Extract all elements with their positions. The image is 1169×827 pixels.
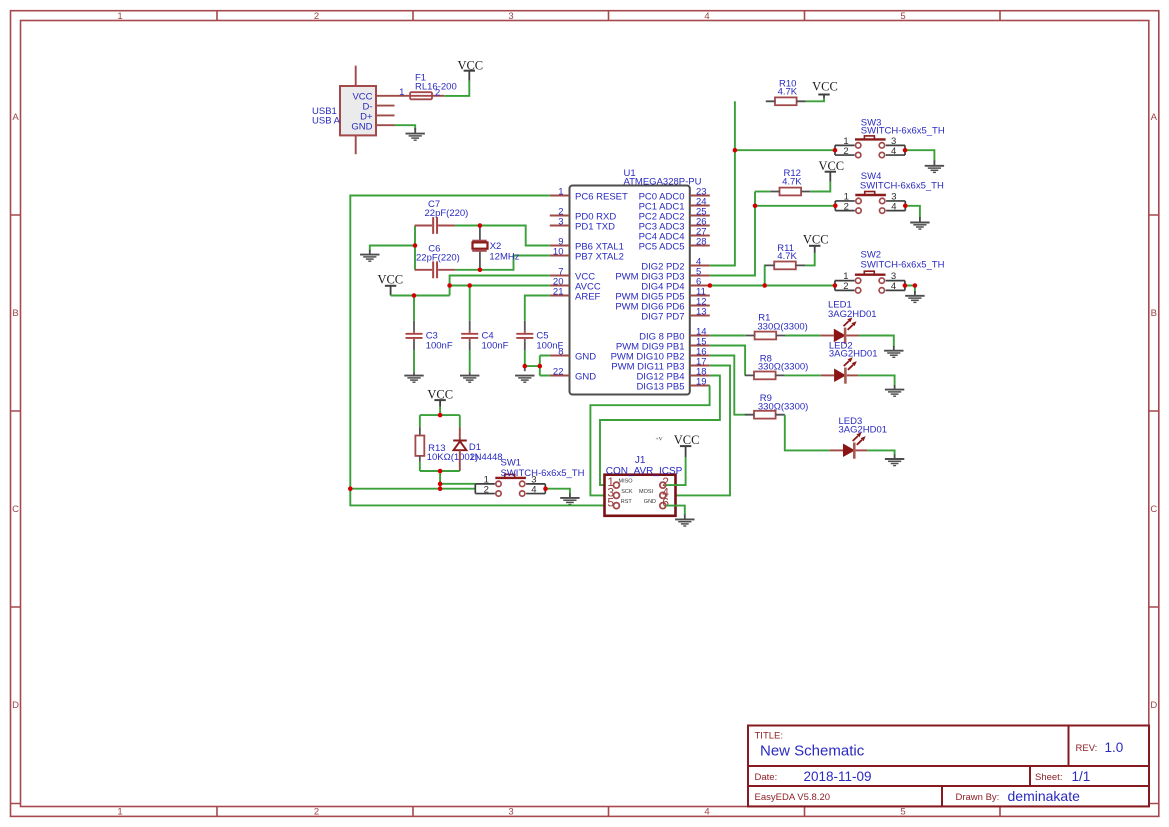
- svg-text:22pF(220): 22pF(220): [425, 208, 469, 219]
- resistor R8 330ohm: [745, 353, 809, 379]
- svg-text:SWITCH-6x6x5_TH: SWITCH-6x6x5_TH: [861, 259, 945, 270]
- wire R1 to LED1: [785, 335, 820, 337]
- svg-text:GND: GND: [575, 351, 596, 362]
- junction X2 bottom / XTAL2: [478, 268, 483, 273]
- junction SW4 pin1-2: [833, 204, 838, 209]
- svg-text:28: 28: [696, 237, 707, 248]
- wire R10 to VCC: [806, 98, 824, 101]
- svg-text:VCC: VCC: [803, 232, 829, 246]
- junction VCC/R13 rail: [438, 413, 443, 418]
- svg-text:VCC: VCC: [674, 433, 700, 447]
- svg-text:PB7 XTAL2: PB7 XTAL2: [575, 251, 624, 262]
- connector J1 CON_AVR_ICSP: [605, 436, 683, 515]
- junction C4 top: [467, 283, 472, 288]
- resistor R9 330ohm: [745, 393, 809, 419]
- diode D1 1N4448: [453, 427, 502, 471]
- wire C3 drop: [413, 296, 415, 321]
- resistor R1 330ohm: [745, 313, 807, 340]
- svg-text:MISO: MISO: [619, 478, 634, 484]
- svg-text:19: 19: [696, 377, 707, 388]
- svg-text:5: 5: [607, 496, 614, 510]
- svg-text:GND: GND: [644, 499, 656, 505]
- svg-text:330Ω(3300): 330Ω(3300): [758, 401, 808, 412]
- power VCC (U1 supply): [377, 272, 403, 295]
- svg-text:1: 1: [558, 187, 563, 198]
- svg-text:3AG2HD01: 3AG2HD01: [839, 425, 888, 436]
- wire RESET to SW1: [350, 488, 475, 490]
- wire MOSI net: U1 pin17 to J1 pin4: [666, 366, 730, 496]
- wire SCK net: U1 pin19 to J1 pin3: [590, 386, 709, 496]
- svg-text:ATMEGA328P-PU: ATMEGA328P-PU: [624, 177, 702, 188]
- ground (LED2): [885, 385, 904, 396]
- crystal X2 12MHz: [472, 226, 520, 270]
- junction PD3/SW4: [753, 204, 758, 209]
- switch SW3: [835, 117, 945, 157]
- ground (LED3): [885, 455, 904, 466]
- svg-text:1: 1: [399, 87, 404, 98]
- wire PD4 net: U1 pin6 to SW2: [710, 285, 835, 287]
- wire LED1 to ground: [859, 336, 894, 348]
- wire R11 to VCC: [805, 253, 815, 266]
- wire R12 to VCC: [810, 182, 830, 192]
- svg-text:22: 22: [553, 367, 564, 378]
- power VCC (R13 reset): [427, 388, 453, 407]
- svg-text:PC5 ADC5: PC5 ADC5: [639, 241, 685, 252]
- ground (SW1): [560, 493, 579, 504]
- wire PB0 net: U1 pin14 to R1: [710, 335, 745, 337]
- svg-text:RST: RST: [621, 499, 633, 505]
- svg-text:12MHz: 12MHz: [489, 252, 519, 263]
- wire RST net to J1 pin5: [350, 489, 613, 506]
- ground (C3): [404, 376, 423, 383]
- svg-text:Drawn By:: Drawn By:: [956, 792, 1000, 803]
- wire SW1 to ground: [546, 489, 570, 495]
- svg-text:2: 2: [435, 88, 440, 99]
- svg-text:4.7K: 4.7K: [777, 251, 797, 262]
- ground (C4): [460, 376, 479, 383]
- svg-text:GND: GND: [351, 121, 372, 132]
- ground (SW2): [905, 291, 924, 302]
- svg-text:USB A: USB A: [312, 116, 341, 127]
- wire SW4 to ground: [905, 206, 920, 218]
- capacitor C3 100nF: [406, 321, 453, 375]
- IC U1 ATMEGA328P-PU body: [570, 168, 702, 395]
- wire VCC to R13/D1 top rail: [420, 407, 460, 427]
- U1 left pin stubs: [550, 196, 570, 376]
- svg-text:3: 3: [558, 217, 563, 228]
- capacitor C5 100nF: [516, 321, 563, 371]
- svg-text:3AG2HD01: 3AG2HD01: [828, 309, 877, 320]
- junction C5 bottom GND: [523, 364, 528, 369]
- junction SW3 pin3-4: [903, 148, 908, 153]
- wire SW3 to ground: [905, 150, 934, 161]
- junction xtal gnd branch: [413, 243, 418, 248]
- svg-text:21: 21: [553, 287, 564, 298]
- svg-text:Sheet:: Sheet:: [1035, 772, 1062, 783]
- svg-text:B: B: [12, 308, 18, 319]
- wire J1 pin6 to ground: [666, 506, 685, 515]
- junction SW4 pin3-4: [903, 204, 908, 209]
- LED2 3AG2HD01: [821, 341, 878, 384]
- svg-text:4.7K: 4.7K: [782, 177, 802, 188]
- junction GND pins branch: [538, 364, 543, 369]
- svg-text:X2: X2: [490, 241, 502, 252]
- wire AREF: U1 pin21 to C5: [525, 296, 550, 321]
- junction SW1 pin3-4: [543, 486, 548, 491]
- U1 right pin stubs: [690, 196, 710, 386]
- wire xtal left bus: [414, 226, 416, 270]
- junction SW2 pin1-2: [833, 283, 838, 288]
- svg-text:New Schematic: New Schematic: [760, 743, 865, 760]
- svg-text:GND: GND: [575, 371, 596, 382]
- svg-text:SWITCH-6x6x5_TH: SWITCH-6x6x5_TH: [501, 468, 585, 479]
- svg-text:C: C: [1150, 504, 1157, 515]
- svg-text:VCC: VCC: [818, 159, 844, 173]
- power VCC (USB): [457, 58, 483, 80]
- svg-text:2: 2: [314, 807, 319, 818]
- svg-text:4: 4: [704, 11, 709, 22]
- svg-text:1/1: 1/1: [1072, 769, 1091, 784]
- svg-text:13: 13: [696, 307, 707, 318]
- resistor R11 4.7K: [765, 243, 805, 269]
- svg-text:SWITCH-6x6x5_TH: SWITCH-6x6x5_TH: [860, 181, 944, 192]
- wire MISO net: U1 pin18 to J1 pin1: [600, 376, 720, 486]
- svg-text:TITLE:: TITLE:: [755, 731, 784, 742]
- svg-text:PC6 RESET: PC6 RESET: [575, 191, 628, 202]
- LED1 3AG2HD01: [820, 300, 876, 344]
- svg-text:100nF: 100nF: [536, 341, 563, 352]
- wire RESET net: U1 pin1 to SW1 area: [350, 196, 550, 489]
- svg-text:100nF: 100nF: [482, 341, 509, 352]
- svg-text:1: 1: [117, 11, 122, 22]
- svg-text:J1: J1: [635, 455, 646, 466]
- junction PD4 stub: [708, 283, 713, 288]
- U1 left pin names: [575, 191, 628, 382]
- junction SW2 pin3-4: [903, 283, 908, 288]
- junction SW1 pin1 row: [438, 482, 443, 487]
- capacitor C4 100nF: [461, 321, 508, 375]
- svg-text:SWITCH-6x6x5_TH: SWITCH-6x6x5_TH: [861, 126, 945, 137]
- resistor R13 10K (vertical): [415, 427, 478, 463]
- svg-text:10: 10: [553, 247, 564, 258]
- junction AVCC column: [447, 283, 452, 288]
- svg-text:1N4448: 1N4448: [469, 452, 502, 463]
- wire PB1 net: U1 pin15 to R8: [710, 346, 745, 376]
- junction R13/D1 bottom rail: [438, 469, 443, 474]
- svg-text:deminakate: deminakate: [1008, 788, 1081, 804]
- wire SW1 pin1 row: [440, 483, 475, 485]
- capacitor C6 22pF: [415, 243, 460, 278]
- svg-text:D: D: [12, 700, 19, 711]
- svg-text:C: C: [12, 504, 19, 515]
- svg-text:SCK: SCK: [621, 489, 633, 495]
- svg-text:VCC: VCC: [377, 272, 403, 286]
- wire XTAL1 net: U1 pin9 to C7 line: [455, 226, 550, 246]
- svg-text:5: 5: [900, 11, 905, 22]
- wire VCC rail to pin7/pin20: [391, 276, 550, 296]
- svg-text:330Ω(3300): 330Ω(3300): [757, 321, 807, 332]
- resistor R10 4.7K: [766, 79, 806, 106]
- junction R11/PD4: [762, 283, 767, 288]
- svg-text:A: A: [1151, 112, 1158, 123]
- wire R8 to LED2: [785, 374, 821, 376]
- svg-text:3AG2HD01: 3AG2HD01: [829, 348, 878, 359]
- svg-text:1: 1: [117, 807, 122, 818]
- ground (C5): [515, 376, 534, 383]
- wire R11 drop: [765, 265, 767, 285]
- svg-text:A: A: [12, 112, 19, 123]
- USB1 pin stubs: [376, 96, 410, 125]
- switch SW1: [475, 458, 584, 497]
- svg-text:+V: +V: [656, 436, 663, 442]
- svg-text:Date:: Date:: [755, 772, 778, 783]
- capacitor C7 22pF: [415, 199, 469, 234]
- junction X2 top / XTAL1: [478, 223, 483, 228]
- svg-text:2018-11-09: 2018-11-09: [804, 769, 872, 784]
- svg-text:MOSI: MOSI: [639, 489, 654, 495]
- junction reset/SW1 row: [438, 486, 443, 491]
- ground (SW4): [910, 217, 929, 229]
- LED3 3AG2HD01: [830, 416, 887, 459]
- svg-text:5: 5: [900, 807, 905, 818]
- wire F1 to VCC: [444, 81, 469, 96]
- U1 right pin names: [611, 191, 685, 392]
- wire USB GND to ground: [395, 125, 416, 130]
- svg-text:D: D: [1150, 700, 1157, 711]
- switch SW2: [835, 250, 945, 293]
- svg-text:DIG13 PB5: DIG13 PB5: [636, 381, 684, 392]
- wire SW2 to ground: [905, 286, 915, 292]
- U1 left pin numbers: [553, 187, 564, 378]
- svg-text:330Ω(3300): 330Ω(3300): [758, 362, 808, 373]
- junction C3 top: [412, 293, 417, 298]
- ground (LED1): [884, 346, 903, 357]
- wire C4 drop: [469, 286, 471, 321]
- connector USB1 body: [312, 66, 376, 155]
- svg-text:AREF: AREF: [575, 291, 601, 302]
- power VCC (J1): [674, 433, 700, 457]
- ground (USB): [406, 128, 425, 140]
- wire PD2 net: U1 pin4 up to R10 and SW3: [710, 101, 835, 265]
- wire R9 to LED3: [785, 415, 830, 451]
- wire J1 pin2 to VCC: [666, 457, 686, 485]
- svg-text:3: 3: [508, 11, 513, 22]
- ground (J1): [675, 515, 694, 527]
- svg-text:CON_AVR_ICSP: CON_AVR_ICSP: [606, 466, 683, 477]
- svg-text:DIG7 PD7: DIG7 PD7: [641, 311, 684, 322]
- svg-text:4.7K: 4.7K: [778, 87, 798, 98]
- wire PD3 net: U1 pin5 up to R12 and SW4: [710, 192, 836, 276]
- svg-text:3: 3: [508, 807, 513, 818]
- junction RESET bus: [348, 486, 353, 491]
- wire R13/D1 bottom rail: [420, 462, 460, 489]
- svg-text:B: B: [1151, 308, 1157, 319]
- wire LED3 to ground: [867, 450, 895, 455]
- svg-text:4: 4: [704, 807, 709, 818]
- fuse F1 RL16-200: [399, 73, 457, 100]
- svg-text:PD1 TXD: PD1 TXD: [575, 221, 615, 232]
- wire LED2 to ground: [858, 375, 894, 385]
- svg-text:6: 6: [662, 496, 669, 510]
- junction SW3 pin1-2: [833, 148, 838, 153]
- svg-text:EasyEDA V5.8.20: EasyEDA V5.8.20: [755, 792, 831, 803]
- svg-text:1.0: 1.0: [1105, 740, 1124, 755]
- title block: [748, 726, 1149, 807]
- svg-text:VCC: VCC: [457, 58, 483, 72]
- junction PD2/SW3: [733, 148, 738, 153]
- wire GND net to pins 8 and 22: [525, 356, 550, 376]
- U1 right pin numbers: [696, 187, 707, 388]
- ground (SW3): [925, 161, 944, 173]
- resistor R12 4.7K: [755, 168, 810, 195]
- switch SW4: [835, 171, 944, 213]
- wire XTAL2 net: U1 pin10 to C6 line: [455, 256, 550, 270]
- ground (xtal): [360, 250, 379, 261]
- power VCC (R12): [818, 159, 844, 182]
- svg-text:2: 2: [314, 11, 319, 22]
- power VCC (R10): [812, 80, 838, 98]
- junction SW2 gnd corner: [913, 283, 918, 288]
- svg-text:REV:: REV:: [1076, 743, 1098, 754]
- wire gnd branch (xtal): [370, 246, 415, 251]
- svg-text:100nF: 100nF: [426, 341, 453, 352]
- wire PB2 net: U1 pin16 to R9: [710, 356, 745, 415]
- power VCC (R11): [803, 232, 829, 253]
- svg-text:VCC: VCC: [812, 80, 838, 94]
- svg-text:22pF(220): 22pF(220): [416, 252, 460, 263]
